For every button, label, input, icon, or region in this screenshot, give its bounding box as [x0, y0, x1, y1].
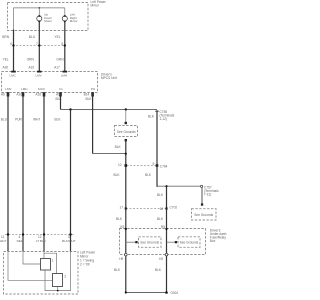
- wire left-right motor top stub: [64, 8, 66, 16]
- wire 11 to comp2: [8, 251, 53, 280]
- wire stub below see grounds 1: [125, 139, 127, 141]
- svg-text:MPCS Unit: MPCS Unit: [101, 76, 117, 80]
- svg-text:PUR: PUR: [15, 117, 22, 121]
- node pin 3: [69, 233, 71, 235]
- node pin 12: [43, 233, 45, 235]
- svg-text:ORN: ORN: [27, 58, 35, 62]
- connector C (mirror) dashed line: [13, 45, 67, 47]
- svg-text:6: 6: [10, 42, 12, 46]
- svg-text:R5: R5: [161, 225, 165, 229]
- wire common branch down to actuator: [70, 110, 72, 252]
- svg-text:BLK: BLK: [54, 117, 61, 121]
- svg-text:RED: RED: [17, 239, 24, 243]
- svg-text:H2: H2: [159, 257, 163, 261]
- svg-text:BLK: BLK: [114, 268, 121, 272]
- node motor feed junction: [39, 7, 41, 9]
- svg-text:Box: Box: [210, 239, 216, 243]
- svg-text:BLK: BLK: [113, 173, 120, 177]
- svg-text:A19: A19: [29, 66, 35, 70]
- svg-text:C764: C764: [160, 164, 168, 168]
- pin tab B14: [91, 92, 94, 96]
- see grounds box 4: [192, 209, 217, 220]
- svg-text:7: 7: [36, 42, 38, 46]
- svg-text:BLK: BLK: [145, 173, 152, 177]
- svg-text:BLK: BLK: [157, 193, 164, 197]
- wire branch down to C702: [166, 186, 168, 292]
- ground bus to G501: [126, 292, 167, 294]
- svg-text:BLK: BLK: [148, 115, 155, 119]
- pin tab A5: [59, 92, 62, 96]
- actuator motor 2 tilt: [53, 274, 63, 287]
- see grounds link left: [126, 241, 137, 243]
- svg-text:A6: A6: [1, 93, 5, 97]
- svg-text:A5: A5: [56, 93, 60, 97]
- svg-text:See Grounds: See Grounds: [140, 240, 159, 244]
- node pin 6: [12, 44, 14, 46]
- up-down motor M1: [37, 13, 53, 23]
- wire mirror pin 6 down: [13, 30, 15, 72]
- svg-text:See Grounds: See Grounds: [117, 130, 136, 134]
- pin tab A19: [37, 71, 42, 73]
- wire comp2 bottom: [57, 287, 59, 291]
- svg-text:BLK/WHT: BLK/WHT: [62, 239, 76, 243]
- wire branch to comp2 top: [44, 253, 57, 274]
- svg-text:G501: G501: [171, 291, 179, 295]
- svg-text:C702: C702: [170, 205, 178, 209]
- svg-text:1: 1: [52, 258, 54, 262]
- wire up-down motor top stub: [38, 8, 40, 16]
- svg-text:18: 18: [159, 207, 163, 211]
- connector C757 terminal ring: [201, 185, 203, 187]
- svg-text:K5: K5: [120, 225, 124, 229]
- svg-text:WHT: WHT: [33, 117, 40, 121]
- svg-text:LMV: LMV: [5, 87, 11, 91]
- wire motor1 bottom down pin 7: [38, 22, 40, 71]
- svg-text:A10: A10: [16, 93, 22, 97]
- svg-text:A18: A18: [35, 93, 41, 97]
- pin tab A17: [63, 71, 68, 73]
- svg-text:YEL: YEL: [3, 58, 9, 62]
- svg-text:LMC: LMC: [10, 74, 17, 78]
- svg-text:BLK: BLK: [157, 217, 164, 221]
- svg-text:LT BLU: LT BLU: [36, 239, 46, 243]
- svg-text:BLK: BLK: [155, 268, 162, 272]
- node junction common branch: [69, 108, 71, 110]
- left power mirror actuator box (bottom): [4, 252, 79, 295]
- node G501: [165, 291, 168, 294]
- svg-text:BLK: BLK: [116, 217, 123, 221]
- see grounds box 1: [115, 126, 138, 137]
- svg-text:2: 2: [64, 274, 66, 278]
- svg-text:GRN: GRN: [56, 58, 64, 62]
- terminal H9: [125, 253, 128, 256]
- node branch down: [165, 185, 167, 187]
- connector C764 dashed: [126, 165, 156, 167]
- svg-text:A30: A30: [3, 66, 9, 70]
- node pin 11: [7, 233, 9, 235]
- pin tab A10: [22, 92, 25, 96]
- driver's MPCS unit box: [2, 72, 98, 93]
- wire motor2 bottom down pin 5: [64, 22, 66, 71]
- wire A5 ground feed: [60, 93, 62, 109]
- left power mirror box (top): [8, 3, 89, 31]
- svg-text:1-12): 1-12): [160, 117, 167, 121]
- svg-text:BLK: BLK: [115, 145, 122, 149]
- see grounds box 2: [139, 237, 162, 248]
- pin tab A6: [7, 92, 10, 96]
- connector at actuator dashed line: [5, 234, 74, 236]
- svg-text:LMH: LMH: [61, 74, 67, 78]
- see grounds link right: [167, 241, 177, 243]
- svg-text:10: 10: [118, 163, 122, 167]
- node comp2 return junction: [57, 290, 59, 292]
- svg-text:5: 5: [61, 42, 63, 46]
- svg-text:IHCC: IHCC: [38, 87, 46, 91]
- node pin 4: [22, 233, 24, 235]
- wire stub C757 to see grounds: [201, 188, 203, 204]
- svg-text:2 = Tilt: 2 = Tilt: [80, 263, 90, 267]
- svg-text:BLK: BLK: [85, 97, 92, 101]
- svg-text:LMV: LMV: [35, 74, 41, 78]
- pin tab A18: [43, 92, 46, 96]
- svg-text:BLU: BLU: [29, 35, 36, 39]
- wire 4 to comp1: [23, 251, 40, 264]
- actuator motor 1 swing: [41, 259, 51, 271]
- wire B14 down: [92, 93, 94, 153]
- node K5: [125, 228, 127, 230]
- wire A18 down: [43, 93, 45, 251]
- node R5: [165, 228, 167, 230]
- wire common feed inside mirror box: [14, 8, 65, 30]
- node B14 junction: [125, 153, 127, 155]
- wire 3 common return: [45, 251, 71, 290]
- svg-text:Motor: Motor: [70, 19, 78, 23]
- svg-text:YEL: YEL: [54, 35, 60, 39]
- node pin 7: [38, 44, 40, 46]
- connector C755 tick: [155, 110, 159, 112]
- see grounds box 3: [178, 237, 200, 248]
- under-dash fuse relay box: [120, 229, 206, 255]
- svg-text:B14: B14: [84, 93, 90, 97]
- svg-text:WHT: WHT: [0, 239, 6, 243]
- svg-text:A17: A17: [54, 66, 60, 70]
- wire C764 to C757: [157, 185, 201, 187]
- svg-text:BLK: BLK: [55, 97, 62, 101]
- wire 12 to comp1 top: [43, 251, 45, 258]
- svg-text:7-12): 7-12): [204, 193, 211, 197]
- svg-text:BLU: BLU: [1, 117, 8, 121]
- connector C702 dashed: [126, 208, 167, 210]
- svg-text:See Grounds: See Grounds: [180, 240, 199, 244]
- svg-text:BRN: BRN: [2, 35, 9, 39]
- svg-text:Motor: Motor: [44, 19, 52, 23]
- svg-text:9: 9: [153, 162, 155, 166]
- svg-text:Mirror: Mirror: [91, 3, 100, 7]
- terminal H2: [165, 253, 168, 256]
- svg-text:PG: PG: [91, 87, 96, 91]
- node pin 5: [64, 44, 66, 46]
- wire A10 down: [22, 93, 24, 251]
- svg-text:See Grounds: See Grounds: [194, 213, 213, 217]
- svg-text:H9: H9: [119, 257, 123, 261]
- node junction ground branch: [125, 108, 127, 110]
- wire A6 down: [7, 93, 9, 251]
- svg-text:LMH: LMH: [21, 87, 27, 91]
- left-right motor M2: [62, 13, 77, 23]
- svg-text:17: 17: [119, 205, 123, 209]
- pin tab A30: [11, 71, 16, 73]
- wire stub to see grounds 1: [125, 110, 127, 124]
